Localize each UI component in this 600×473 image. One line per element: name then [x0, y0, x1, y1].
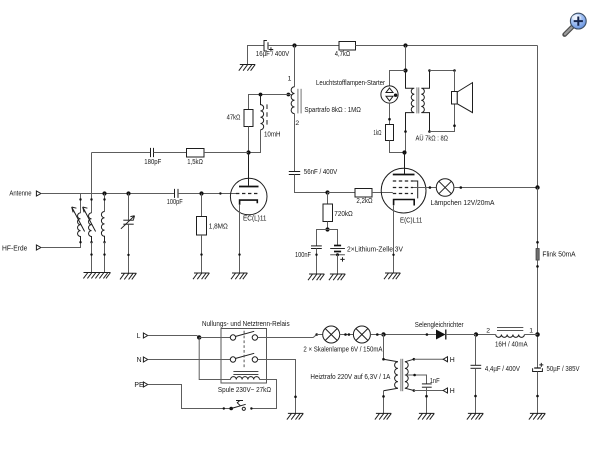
wire: plate junction to E(C)L11 plate [404, 153, 406, 175]
wire: L3 bottom to ground [104, 242, 106, 272]
svg-text:720kΩ: 720kΩ [334, 209, 353, 218]
resistor R 47k [244, 110, 253, 127]
relay contact upper (circles and lever) [230, 331, 257, 340]
wire: 50uF to ground [537, 372, 539, 414]
wire: secondary top to H connector [414, 358, 443, 360]
svg-text:Spule 230V~ 27kΩ: Spule 230V~ 27kΩ [218, 385, 272, 394]
wire: rail 4.7k to right rail corner [356, 45, 538, 47]
choke core lines [497, 328, 523, 331]
wire: N input to lower contact [148, 359, 231, 361]
svg-text:47kΩ: 47kΩ [227, 112, 241, 121]
node: N ground dot [294, 396, 297, 399]
node: cathode ground dot [238, 253, 240, 255]
capacitor C 56nF/400V [289, 172, 300, 175]
capacitor C 180pF [151, 148, 154, 157]
tube V2 cathode [394, 200, 415, 206]
capacitor C 100pF [175, 189, 179, 198]
svg-text:16H / 40mA: 16H / 40mA [495, 339, 528, 348]
tube V2 grid g2 (dashed) [393, 187, 413, 189]
node: 4.4uF ground dot [474, 395, 477, 398]
wire: cathode lead to ground [239, 205, 241, 273]
transformer AU core [417, 87, 419, 113]
relay contact lower (circles and lever) [230, 353, 257, 362]
wire: junction to battery top [328, 230, 338, 246]
node: primary top terminal dot [382, 358, 385, 361]
node: junction grid wire / L3 [102, 191, 106, 195]
wire: tap stub [288, 94, 291, 96]
wire: coil right lead to switch [251, 380, 276, 409]
tube V1 EC(L)11 envelope [230, 178, 267, 215]
svg-text:100nF: 100nF [295, 250, 311, 259]
svg-text:1kΩ: 1kΩ [373, 128, 381, 137]
wire: 1nF to ground (crosses H wire) [426, 387, 428, 413]
wire: tuning cap top lead [128, 194, 130, 221]
wire: L input to relay junction [148, 336, 200, 338]
switch S1 power switch [229, 401, 245, 411]
resistor R 720k [323, 204, 333, 222]
wire: V2 cathode lead to ground [393, 205, 395, 273]
node: tuning cap ground dot [127, 254, 129, 256]
fuse F Flink 50mA [536, 249, 539, 261]
node: fuse bottom terminal dot [536, 265, 539, 268]
ground (4.4uF) [467, 413, 483, 419]
wire: L2 top up to 180pF row [91, 153, 93, 213]
tube V1 cathode [240, 200, 258, 205]
speaker LS [452, 83, 473, 113]
transformer Heiztrafo core [401, 359, 403, 391]
node: battery bottom dot [336, 253, 339, 256]
ground (tuning capacitor) [120, 273, 136, 279]
svg-text:H: H [450, 388, 455, 395]
wire: top B+ rail left segment to 16uF [248, 46, 264, 65]
node: L1 terminal dots [79, 198, 81, 200]
node: L3 ground dot [103, 253, 105, 255]
node: junction grid wire / tuning cap [126, 191, 130, 195]
svg-text:16µF / 400V: 16µF / 400V [256, 49, 290, 58]
svg-text:2: 2 [486, 328, 490, 335]
svg-text:2: 2 [295, 120, 299, 127]
ground (V2 cathode) [384, 273, 400, 279]
wire: 100pF to EC(L)11 grid [178, 193, 236, 195]
capacitor C 100nF [311, 246, 322, 249]
wire: stub to lamp1 [317, 334, 323, 336]
resistor R 4.7k (in rail) [339, 42, 356, 51]
wire: g3 tie bracket [413, 181, 418, 198]
transformer Spartrafo winding [291, 87, 294, 114]
connector N (triangle) [143, 357, 147, 362]
lamp Laempchen 12V/20mA [436, 179, 454, 197]
node: junction 720k/100nF/battery [325, 227, 329, 231]
battery BT 2x lithium cells [330, 246, 345, 262]
inductor 10mH core (dashed) [266, 104, 268, 127]
node: secondary top corner dot [428, 69, 431, 72]
resistor R 1k [386, 125, 394, 141]
wire: L3 top lead [104, 194, 106, 212]
transformer AU output: primary winding [406, 71, 415, 132]
node: starter-1k terminal dot [388, 118, 391, 121]
wire: choke pin1 to rail [524, 334, 537, 336]
svg-text:Leuchtstofflampen-Starter: Leuchtstofflampen-Starter [316, 78, 385, 87]
wire: plate lead inside tube [248, 153, 250, 186]
ground (N bonding) [287, 413, 303, 419]
wire: 1.8M top lead [201, 194, 203, 217]
wire: 180pF row left segment [92, 152, 151, 154]
transformer Heiztrafo secondary winding [405, 359, 414, 390]
tube V2 grid g1 (dashed) [393, 193, 413, 195]
transformer Spartrafo: lead from rail [294, 46, 296, 87]
tube V2 E(C)L11 envelope [381, 168, 426, 213]
svg-text:Spartrafo 8kΩ : 1MΩ: Spartrafo 8kΩ : 1MΩ [304, 105, 361, 114]
node: secondary top terminal dot [413, 358, 416, 361]
lamp starter (Leuchtstofflampen-Starter) [381, 86, 398, 103]
capacitor C 50uF/385V (electrolytic) [533, 363, 544, 372]
resistor R 2.2k [355, 189, 372, 198]
node: lamp wire terminal dot [429, 186, 432, 189]
tube V1 plate [239, 186, 259, 188]
node: secondary bottom terminal dot [428, 130, 431, 133]
node: secondary bottom terminal dot [413, 389, 416, 392]
node: speaker bottom terminal dot [453, 124, 456, 127]
svg-text:56nF / 400V: 56nF / 400V [304, 167, 338, 176]
wire: PE to power switch [148, 385, 232, 409]
relay K1 box [221, 329, 267, 384]
tube V2 grid g3 (dashed) [393, 180, 413, 182]
inductor L1 antenna coupling coil (variable) [78, 213, 81, 242]
ground (battery) [329, 274, 345, 280]
wire: L junction to upper contact [199, 337, 230, 339]
svg-text:L: L [137, 333, 141, 340]
node: speaker top terminal dot [453, 69, 456, 72]
node: junction 4.4uF / rectifier [474, 332, 478, 336]
relay coil core lines [233, 372, 258, 375]
lamp dial lamp 2 [353, 326, 370, 343]
wire: secondary center tap to 1nF [405, 375, 427, 384]
svg-text:Selengleichrichter: Selengleichrichter [415, 320, 464, 329]
capacitor C 16uF/400V (electrolytic, horizontal) [264, 41, 273, 52]
transformer Heiztrafo primary winding [384, 359, 398, 391]
node: 1nF ground dot [425, 395, 428, 398]
svg-text:E(C)L11: E(C)L11 [400, 215, 422, 224]
wire: primary bottom to ground [383, 391, 385, 414]
ground (heater trafo primary) [375, 413, 391, 419]
node: junction rail/output-stage drop [403, 43, 407, 47]
svg-text:10mH: 10mH [264, 129, 281, 138]
node: junction grid wire / 1.8M [199, 191, 203, 195]
wire: 56nF bottom to grid junction [295, 175, 328, 193]
ground (100nF) [308, 274, 324, 280]
wire: 2.2k to E(C)L11 grid [372, 192, 393, 194]
wire: 720k top lead [327, 193, 329, 205]
node: 10mH top junction [259, 93, 263, 97]
inductor L3 tuned winding [101, 212, 104, 243]
ground (top-left, 16uF negative) [239, 65, 255, 71]
svg-text:Flink 50mA: Flink 50mA [542, 250, 575, 259]
connector L (triangle) [143, 333, 147, 338]
node: 100nF ground dot [315, 254, 317, 256]
wire: primary bottom lead to plate junction [405, 132, 407, 153]
node: 50uF ground dot [536, 395, 539, 398]
connector Antenne (triangle) [36, 191, 41, 196]
node: switch right terminal dot [250, 407, 252, 409]
node: junction 1k/transformer/plate [402, 150, 406, 154]
wire: secondary bottom to speaker bottom [430, 104, 455, 132]
node: junction 56nF/720k/2.2k [325, 190, 329, 194]
wire: tuning cap bottom to ground [128, 224, 130, 273]
wire: junction to 2.2k [328, 192, 356, 194]
wire: 4.4uF top lead [475, 335, 477, 366]
ground (50uF) [529, 413, 545, 419]
wire: rail drop to starter/transformer junction [405, 46, 407, 71]
node: dial lamp left terminal dot [315, 333, 318, 336]
wire: junction to 100nF [317, 230, 328, 246]
wire: 47k bottom to 1.5k row junction [248, 127, 250, 153]
lamp dial lamp 1 [323, 326, 340, 343]
node: grid terminal dot [219, 192, 221, 194]
svg-text:4,7kΩ: 4,7kΩ [335, 49, 351, 58]
wire: 10mH bottom hook to junction [249, 130, 261, 153]
relay actuator link (dashed) [243, 331, 245, 370]
wire: tap to 47k/10mH column [249, 95, 289, 110]
inductor L2 coupling coil (variable) [89, 213, 92, 242]
wire: 4.4uF to ground [475, 368, 477, 413]
svg-text:HF-Erde: HF-Erde [2, 245, 28, 252]
svg-text:1,8MΩ: 1,8MΩ [209, 221, 229, 230]
node: junction lamps/heater-trafo/diode [381, 332, 385, 336]
svg-text:1,5kΩ: 1,5kΩ [187, 157, 203, 166]
wire: battery to ground [337, 255, 339, 274]
wire: plate lead inside tube [404, 153, 406, 174]
wire: 720k bottom to battery junction [327, 222, 329, 230]
svg-text:4,4µF / 400V: 4,4µF / 400V [485, 364, 520, 373]
svg-text:100pF: 100pF [167, 197, 183, 206]
wire: g2 exit to pilot lamp [413, 187, 436, 189]
svg-text:Lämpchen 12V/20mA: Lämpchen 12V/20mA [431, 198, 495, 207]
node: fuse top terminal dot [536, 241, 539, 244]
wire: heater trafo primary top lead [383, 335, 385, 360]
svg-text:N: N [137, 357, 142, 364]
svg-text:AÜ 7kΩ : 8Ω: AÜ 7kΩ : 8Ω [416, 133, 449, 142]
wire: lower contact to chassis ground [258, 360, 296, 414]
wire: antenna wire down to coil L1 [80, 194, 82, 213]
node: junction rail/Spartrafo pin1 [292, 43, 296, 47]
node: junction lamp/right rail [535, 185, 539, 189]
node: L2 terminal dots [90, 198, 92, 200]
svg-text:H: H [450, 357, 455, 364]
wire: starter bottom to 1k resistor [389, 103, 391, 124]
ground (1.8M) [193, 273, 209, 279]
ground (wide, under L2/L3) [83, 273, 110, 279]
ground (V1 cathode) [231, 273, 247, 279]
capacitor C 1nF [422, 384, 432, 387]
resistor R 1.8M [197, 217, 207, 236]
wire: L2 bottom to ground [91, 242, 93, 272]
svg-text:2×Lithium-Zelle 3V: 2×Lithium-Zelle 3V [347, 244, 403, 253]
svg-text:50µF / 385V: 50µF / 385V [547, 364, 580, 373]
transformer Spartrafo core [298, 89, 301, 114]
node: Spartrafo tap dot [287, 93, 291, 97]
wire: right rail lamp row to fuse [537, 188, 539, 249]
node: primary ground dot [382, 395, 385, 398]
wire: 1.8M bottom to ground [201, 235, 203, 273]
node: lamp2 right terminal dot [376, 333, 379, 336]
node: L3 terminal dots [103, 198, 105, 200]
transformer AU secondary winding [421, 71, 429, 132]
capacitor C tuning (variable) [121, 216, 135, 229]
svg-text:Heiztrafo 220V auf 6,3V / 1A: Heiztrafo 220V auf 6,3V / 1A [310, 372, 390, 381]
inductor L 10mH [261, 95, 264, 130]
wire: heater junction to diode anode [384, 334, 437, 336]
svg-text:2,2kΩ: 2,2kΩ [356, 196, 373, 205]
diode D Selengleichrichter [436, 330, 446, 340]
tube V2 plate [393, 174, 415, 176]
wire: choke pin2 to 4.4uF junction [476, 334, 496, 336]
node: center tap terminal dot [413, 374, 416, 377]
connector HF-Erde (triangle) [36, 245, 41, 250]
node: junction L/relay coil [197, 335, 201, 339]
connector H (top heater) [443, 357, 447, 362]
wire: Spartrafo pin2 down to 56nF [294, 114, 296, 172]
svg-text:EC(L)11: EC(L)11 [243, 214, 267, 223]
node: junction starter/transformer [403, 68, 407, 72]
wire: 1k bottom to plate junction [390, 141, 405, 153]
wire: junction to starter top [390, 71, 406, 86]
node: V2 cathode ground dot [392, 254, 394, 256]
wire: lamp2 to heater junction [370, 334, 383, 336]
wire: HF-Erde to coupling coil bottom [41, 242, 81, 247]
arrow: L2 variometer arrow [83, 207, 96, 232]
svg-text:1nF: 1nF [430, 376, 440, 385]
svg-text:2 × Skalenlampe 6V / 150mA: 2 × Skalenlampe 6V / 150mA [303, 345, 382, 354]
node: junction 47k/10mH/1.5k/plate [246, 150, 250, 154]
node: lamp1/lamp2 terminal dots [344, 333, 347, 336]
wire: rail 16uF to 4.7k resistor [268, 45, 339, 47]
wire: secondary bottom to H connector [414, 390, 443, 392]
node: diode anode terminal dot [426, 333, 429, 336]
connector H (bottom heater) [443, 388, 447, 393]
wire: antenna input / grid row [41, 193, 175, 195]
wire: speaker top lead [454, 71, 456, 92]
wire: 180pF to 1.5k [154, 152, 187, 154]
node: 1.8M ground dot [200, 253, 202, 255]
arrow: L1 variometer arrow [72, 207, 85, 232]
svg-text:Nullungs- und Netztrenn-Relais: Nullungs- und Netztrenn-Relais [202, 319, 290, 328]
zoom icon (magnifier) [565, 13, 587, 34]
node: junction choke pin1 / 50uF [535, 332, 540, 337]
wire: upper contact to dial lamps [258, 335, 317, 338]
ground (1nF) [418, 413, 434, 419]
wire: right vertical rail down to lamp row [537, 46, 539, 188]
inductor L choke 16H/40mA [496, 335, 525, 338]
relay coil winding [231, 377, 260, 380]
node: primary terminal dot [404, 130, 407, 133]
wire: fuse to choke junction [537, 260, 539, 368]
svg-text:180pF: 180pF [144, 157, 161, 166]
wire: coil left lead to L junction [199, 338, 230, 380]
node: PE wire terminal dot [223, 407, 225, 409]
wire: 100nF bottom to ground [316, 249, 318, 274]
node: L2 ground dot [90, 253, 92, 255]
capacitor C 4.4uF/400V [471, 365, 482, 368]
wire: 1.5k to 47k junction [204, 152, 249, 154]
svg-text:1: 1 [288, 75, 292, 82]
resistor R 1.5k [187, 149, 205, 158]
tube V1 grid (dashed) [236, 193, 259, 195]
svg-text:1: 1 [529, 328, 533, 335]
connector PE (triangle) [143, 382, 147, 387]
svg-text:PE: PE [134, 382, 144, 389]
wire: lamp to right rail [454, 187, 538, 189]
wire: diode cathode to 4.4uF junction [446, 334, 476, 336]
wire: secondary top to speaker [430, 70, 455, 72]
svg-text:Antenne: Antenne [9, 191, 31, 198]
node: lamp right terminal dot [460, 186, 463, 189]
wire: lamp1 to lamp2 [340, 334, 354, 336]
